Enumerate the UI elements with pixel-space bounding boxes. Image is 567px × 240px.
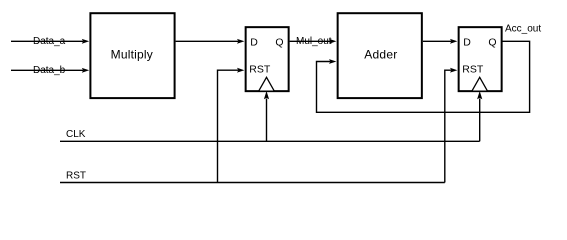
wire U1 clock branch — [264, 91, 269, 141]
wire Acc_out feedback — [317, 23, 542, 112]
wire RST rail — [60, 170, 445, 182]
svg-text:CLK: CLK — [66, 129, 86, 140]
wire Data_b — [11, 65, 89, 76]
wire CLK rail — [60, 129, 480, 141]
svg-text:RST: RST — [249, 63, 271, 75]
svg-text:Data_b: Data_b — [33, 65, 66, 76]
svg-text:RST: RST — [66, 170, 86, 181]
block Multiply — [90, 13, 174, 98]
svg-text:RST: RST — [462, 63, 484, 75]
svg-text:Adder: Adder — [364, 47, 397, 61]
svg-text:Q: Q — [275, 37, 283, 49]
wire U2 clock branch — [477, 91, 482, 141]
flip-flop U1 box — [246, 27, 289, 91]
svg-text:Multiply: Multiply — [111, 47, 153, 61]
svg-text:D: D — [250, 37, 258, 49]
svg-text:D: D — [463, 37, 471, 49]
flip-flop U1 clock triangle — [259, 77, 275, 91]
wire U2 RST branch — [445, 68, 458, 183]
svg-text:Q: Q — [488, 37, 496, 49]
svg-text:Data_a: Data_a — [33, 36, 66, 47]
wire Multiply output to U1 D — [176, 39, 245, 44]
flip-flop U2 clock triangle — [472, 77, 488, 91]
wire Data_a — [11, 36, 89, 47]
wire Adder output to U2 D — [423, 39, 458, 44]
wire Mul_out (U1 Q to Adder) — [290, 36, 337, 47]
wire U1 RST branch — [218, 68, 245, 183]
flip-flop U2 box — [459, 27, 502, 91]
block Adder — [338, 13, 422, 98]
svg-text:Mul_out: Mul_out — [296, 36, 332, 47]
svg-text:Acc_out: Acc_out — [505, 23, 541, 34]
